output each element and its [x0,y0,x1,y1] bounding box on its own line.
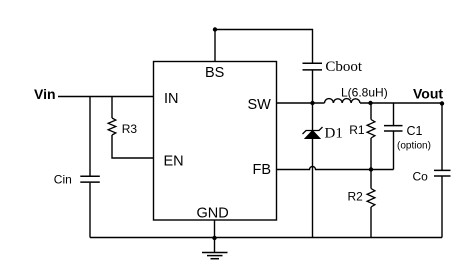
svg-text:IN: IN [164,91,179,107]
svg-text:FB: FB [253,162,272,178]
svg-text:BS: BS [205,65,224,81]
svg-text:Cin: Cin [54,172,72,186]
svg-text:L(6.8uH): L(6.8uH) [341,85,388,99]
svg-text:GND: GND [197,206,229,222]
svg-text:Cboot: Cboot [325,59,363,75]
svg-text:D1: D1 [325,126,343,142]
svg-text:SW: SW [248,97,272,113]
svg-text:EN: EN [164,154,184,170]
svg-text:C1: C1 [407,124,423,138]
svg-text:R1: R1 [349,123,365,137]
svg-text:(option): (option) [397,140,431,151]
svg-text:Vin: Vin [34,86,56,102]
svg-text:R2: R2 [348,190,364,204]
svg-text:R3: R3 [122,122,138,136]
svg-text:Vout: Vout [413,85,443,101]
svg-text:Co: Co [413,170,429,184]
